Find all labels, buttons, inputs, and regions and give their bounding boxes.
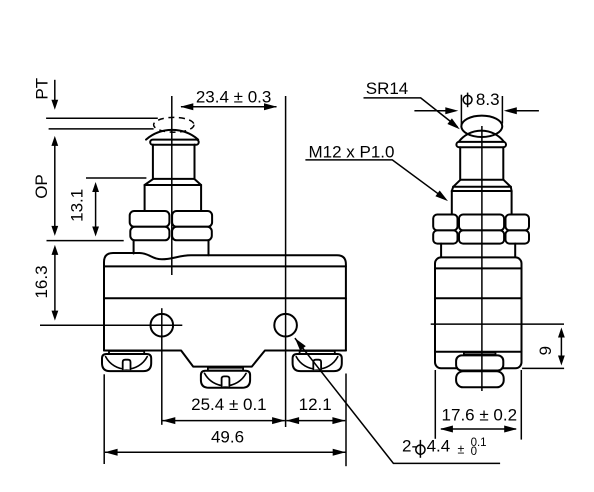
svg-text:25.4 ± 0.1: 25.4 ± 0.1 (191, 395, 267, 414)
svg-text:OP: OP (32, 174, 51, 199)
svg-text:16.3: 16.3 (32, 265, 51, 298)
svg-text:±: ± (458, 442, 465, 456)
svg-text:23.4 ± 0.3: 23.4 ± 0.3 (196, 87, 272, 106)
svg-text:M12 x P1.0: M12 x P1.0 (309, 142, 395, 161)
svg-text:12.1: 12.1 (299, 395, 332, 414)
svg-text:2-: 2- (402, 436, 417, 455)
svg-text:0: 0 (471, 446, 477, 458)
svg-text:8.3: 8.3 (476, 90, 500, 109)
svg-text:17.6 ± 0.2: 17.6 ± 0.2 (442, 406, 518, 425)
svg-text:9: 9 (536, 346, 555, 355)
svg-text:SR14: SR14 (366, 79, 409, 98)
svg-text:PT: PT (32, 78, 51, 100)
svg-text:13.1: 13.1 (68, 189, 87, 222)
svg-text:49.6: 49.6 (211, 427, 244, 446)
svg-text:4.4: 4.4 (427, 436, 451, 455)
